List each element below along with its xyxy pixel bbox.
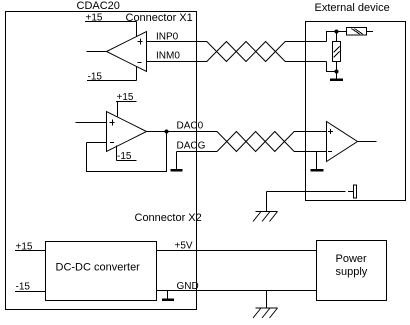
node A <box>335 30 339 34</box>
wire +5V <box>157 250 317 252</box>
Power supply box <box>317 241 387 301</box>
wire U3 output stub <box>358 141 377 143</box>
svg-text:+5V: +5V <box>175 241 193 252</box>
svg-text:DACG: DACG <box>177 141 206 152</box>
wire INP0 to node A <box>327 32 347 42</box>
wire DACG <box>177 151 218 153</box>
wire U2 output / DAC0 <box>147 131 218 133</box>
DC-DC converter box <box>46 242 157 301</box>
wire U2 - input <box>87 142 107 144</box>
ground U3 - input <box>311 152 324 172</box>
wire -15 to U2 <box>117 146 137 161</box>
ground GND <box>162 291 174 302</box>
twisted pair INP0/INM0 <box>197 42 327 62</box>
svg-text:External device: External device <box>315 2 390 14</box>
wire U2 feedback <box>87 132 167 172</box>
svg-text:Connector X2: Connector X2 <box>135 212 202 224</box>
wire INM0 to node B <box>327 62 337 72</box>
External device box <box>306 22 406 201</box>
wire R1 right stub <box>367 31 374 33</box>
ground DACG <box>171 152 183 172</box>
wire chassis <box>267 191 354 193</box>
earth ground 1 <box>253 192 278 222</box>
wire INM0 <box>147 61 208 63</box>
svg-text:DAC0: DAC0 <box>177 121 204 132</box>
svg-text:-15: -15 <box>16 282 31 293</box>
earth ground 2 <box>253 291 278 319</box>
op-amp U2 <box>107 112 147 152</box>
node B <box>335 70 339 74</box>
wire U2 + input <box>76 122 107 124</box>
node DAC0 junction <box>165 130 169 134</box>
chassis terminal bar <box>354 185 357 198</box>
wire +15 DC-DC <box>15 250 46 252</box>
svg-text:INM0: INM0 <box>156 51 180 62</box>
wire +15 to U1 <box>85 22 137 38</box>
svg-text:Connector X1: Connector X1 <box>126 12 193 24</box>
op-amp U3 <box>327 122 358 162</box>
resistor R1 <box>347 28 367 36</box>
wire R2 leads <box>336 32 338 72</box>
svg-text:INP0: INP0 <box>156 32 179 43</box>
wire GND <box>157 290 317 292</box>
op-amp U1 <box>107 32 147 72</box>
svg-text:DC-DC converter: DC-DC converter <box>56 262 141 274</box>
svg-text:Power: Power <box>336 253 368 265</box>
ground node B <box>330 72 343 82</box>
wire INP0 <box>147 41 208 43</box>
svg-text:supply: supply <box>336 266 368 278</box>
twisted pair DAC0/DACG <box>197 132 327 152</box>
svg-text:CDAC20: CDAC20 <box>77 0 120 12</box>
wire -15 DC-DC <box>15 291 46 293</box>
resistor R2 <box>333 42 341 62</box>
wire +15 to U2 <box>116 102 137 117</box>
wire -15 to U1 <box>87 67 137 81</box>
CDAC20 box <box>6 12 197 310</box>
wire U1 output stub <box>87 51 107 53</box>
